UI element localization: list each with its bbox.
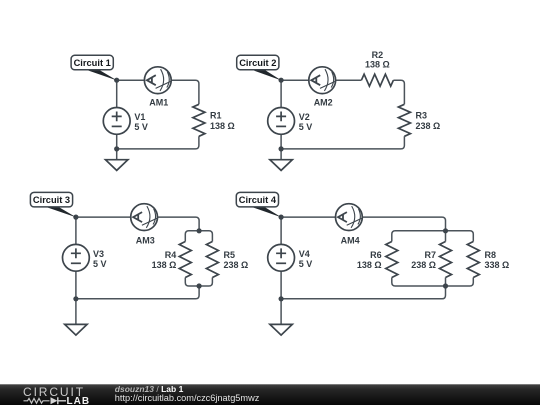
svg-text:5 V: 5 V xyxy=(93,259,107,269)
wire c4 ground stem xyxy=(280,299,282,325)
wire c3 bus to rail stem xyxy=(76,286,199,299)
footer bar xyxy=(0,384,540,405)
svg-text:V2: V2 xyxy=(299,112,310,122)
ammeter AM2 xyxy=(309,67,336,94)
ground xyxy=(270,324,292,335)
ammeter AM4 xyxy=(336,204,363,231)
svg-text:R7: R7 xyxy=(424,250,436,260)
wire c2 ground stem xyxy=(280,149,282,160)
node c1 bottom junction xyxy=(114,146,119,151)
resistor R6 xyxy=(386,242,398,278)
node c4 bus bottom junction xyxy=(443,283,448,288)
svg-text:Circuit 2: Circuit 2 xyxy=(239,58,276,68)
svg-text:Circuit 3: Circuit 3 xyxy=(33,195,70,205)
ammeter AM3 xyxy=(131,204,158,231)
svg-text:AM4: AM4 xyxy=(341,235,360,245)
svg-text:R4: R4 xyxy=(165,250,177,260)
wire c1 ground stem xyxy=(116,149,118,160)
node c4 top junction xyxy=(279,215,284,220)
svg-text:5 V: 5 V xyxy=(299,259,313,269)
logo diode symbol xyxy=(51,397,58,404)
wire c3 ground stem xyxy=(75,299,77,325)
voltage source V1 xyxy=(103,108,130,135)
svg-text:238 Ω: 238 Ω xyxy=(224,260,249,270)
svg-text:AM3: AM3 xyxy=(136,235,155,245)
label flag Circuit 2 xyxy=(237,55,282,80)
label flag Circuit 3 xyxy=(30,192,76,217)
label flag Circuit 4 xyxy=(236,192,281,217)
svg-text:5 V: 5 V xyxy=(134,122,148,132)
resistor R2 xyxy=(361,74,393,86)
resistor R7 xyxy=(440,242,452,278)
wire c4 top rail xyxy=(281,217,445,231)
node c3 bus top junction xyxy=(197,228,202,233)
svg-text:138 Ω: 138 Ω xyxy=(152,260,177,270)
wire c3 left vertical xyxy=(75,217,77,299)
resistor R1 xyxy=(193,104,205,136)
svg-text:238 Ω: 238 Ω xyxy=(416,121,441,131)
svg-text:R6: R6 xyxy=(370,250,382,260)
wire c4 left vertical xyxy=(280,217,282,299)
svg-text:AM1: AM1 xyxy=(149,98,168,108)
resistor R3 xyxy=(398,104,410,136)
svg-text:Circuit 1: Circuit 1 xyxy=(74,58,111,68)
svg-text:138 Ω: 138 Ω xyxy=(210,121,235,131)
wire c2 bottom rail xyxy=(281,136,404,149)
voltage source V3 xyxy=(63,244,90,271)
voltage source V2 xyxy=(268,108,295,135)
wire c1 top rail xyxy=(117,80,199,104)
node c1 top junction xyxy=(114,78,119,83)
ground xyxy=(270,160,292,171)
label flag Circuit 1 xyxy=(71,55,117,80)
svg-text:R3: R3 xyxy=(416,111,428,121)
voltage source V4 xyxy=(268,244,295,271)
logo resistor squiggle xyxy=(24,398,50,403)
wire c1 left vertical xyxy=(116,80,118,149)
wire c4 R7 bottom lead xyxy=(445,278,447,287)
svg-text:R8: R8 xyxy=(485,250,497,260)
ground xyxy=(106,160,128,171)
wire c4 bus to rail stem xyxy=(281,286,445,299)
node c2 top junction xyxy=(279,78,284,83)
svg-text:V4: V4 xyxy=(299,249,310,259)
svg-text:238 Ω: 238 Ω xyxy=(411,260,436,270)
wire c3 top rail xyxy=(76,217,199,231)
svg-text:Circuit 4: Circuit 4 xyxy=(239,195,277,205)
svg-text:R2: R2 xyxy=(372,50,384,60)
svg-text:V1: V1 xyxy=(134,112,145,122)
wire c4 R7 top lead xyxy=(445,231,447,242)
resistor R5 xyxy=(206,242,218,278)
wire c2 left vertical xyxy=(280,80,282,149)
wire c3 bottom bus xyxy=(185,278,212,287)
svg-text:5 V: 5 V xyxy=(299,122,313,132)
wire c4 bottom bus xyxy=(392,278,474,287)
node c4 bottom junction xyxy=(279,296,284,301)
wire c1 bottom rail xyxy=(117,136,199,149)
svg-text:R1: R1 xyxy=(210,111,222,121)
svg-text:LAB: LAB xyxy=(67,396,91,405)
svg-text:V3: V3 xyxy=(93,249,104,259)
svg-text:338 Ω: 338 Ω xyxy=(485,260,510,270)
ammeter AM1 xyxy=(144,67,171,94)
wire c4 top bus xyxy=(392,231,474,242)
resistor R4 xyxy=(179,242,191,278)
wire c2 top rail xyxy=(281,80,404,104)
node c3 top junction xyxy=(73,215,78,220)
svg-text:R5: R5 xyxy=(224,250,236,260)
svg-text:138 Ω: 138 Ω xyxy=(365,59,390,69)
svg-text:AM2: AM2 xyxy=(314,98,333,108)
wire c3 top bus xyxy=(185,231,212,242)
svg-text:http://circuitlab.com/czc6jnat: http://circuitlab.com/czc6jnatg5mwz xyxy=(115,393,260,403)
svg-text:138 Ω: 138 Ω xyxy=(357,260,382,270)
node c2 bottom junction xyxy=(279,146,284,151)
node c3 bus bottom junction xyxy=(197,283,202,288)
ground xyxy=(65,324,87,335)
node c4 bus top junction xyxy=(443,228,448,233)
resistor R8 xyxy=(467,242,479,278)
node c3 bottom junction xyxy=(73,296,78,301)
